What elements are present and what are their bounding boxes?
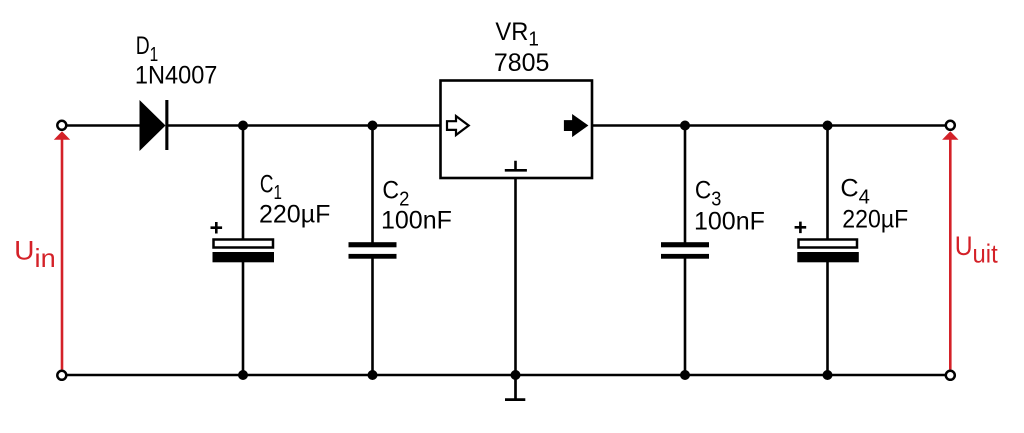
wire C4 top lead xyxy=(826,126,829,240)
VR1 input arrow (open) xyxy=(447,116,469,135)
node junction C3 top xyxy=(680,121,690,131)
C4 positive plate xyxy=(799,240,858,248)
wire C1 top lead xyxy=(242,126,245,240)
wire C3 top lead xyxy=(684,126,687,245)
wire C4 bottom lead xyxy=(826,262,829,375)
node junction C3 bottom xyxy=(680,370,690,380)
wire C1 bottom lead xyxy=(242,262,245,375)
svg-text:100nF: 100nF xyxy=(694,207,765,235)
C3 plate top xyxy=(661,242,709,247)
C4 negative plate xyxy=(797,252,859,262)
svg-text:7805: 7805 xyxy=(494,49,550,77)
capacitor C2 xyxy=(349,126,397,376)
node junction ground bottom xyxy=(511,370,521,380)
node junction C4 top xyxy=(823,121,833,131)
wire C2 top lead xyxy=(371,126,374,245)
capacitor C4 xyxy=(795,126,859,376)
op-amp VR1 regulator box xyxy=(441,81,593,179)
node input terminal top-left xyxy=(57,121,66,130)
svg-text:1N4007: 1N4007 xyxy=(135,61,218,89)
wire top rail right segment xyxy=(592,124,945,127)
wire top rail left segment xyxy=(67,124,140,127)
svg-text:220µF: 220µF xyxy=(842,205,908,233)
C1 negative plate xyxy=(213,252,275,262)
voltage arrow Uin xyxy=(54,131,70,369)
ground xyxy=(505,375,525,401)
VR1 internal ground pin symbol xyxy=(505,161,527,171)
C1 positive plate xyxy=(214,240,274,248)
wire bottom rail xyxy=(67,374,945,377)
svg-text:220µF: 220µF xyxy=(259,201,330,229)
wire VR1 ground lead xyxy=(514,178,517,375)
voltage arrow Uuit xyxy=(942,131,958,369)
wire C2 bottom lead xyxy=(371,257,374,375)
wire top rail mid segment xyxy=(168,124,441,127)
C2 plate bottom xyxy=(349,254,397,259)
C1 plus sign xyxy=(211,222,223,234)
capacitor C1 xyxy=(211,126,275,376)
svg-text:100nF: 100nF xyxy=(381,206,452,234)
diode D1 xyxy=(140,100,169,151)
node junction C1 top xyxy=(238,121,248,131)
node output terminal top-right xyxy=(946,121,955,130)
C3 plate bottom xyxy=(661,254,709,259)
C2 plate top xyxy=(349,242,397,247)
node junction C2 top xyxy=(368,121,378,131)
node junction C2 bottom xyxy=(368,370,378,380)
node output terminal bottom-right xyxy=(946,371,955,380)
wire C3 bottom lead xyxy=(684,257,687,375)
node junction C1 bottom xyxy=(238,370,248,380)
node input terminal bottom-left xyxy=(57,371,66,380)
VR1 output arrow (filled) xyxy=(565,116,587,135)
C4 plus sign xyxy=(795,222,807,234)
capacitor C3 xyxy=(661,126,709,376)
node junction C4 bottom xyxy=(823,370,833,380)
